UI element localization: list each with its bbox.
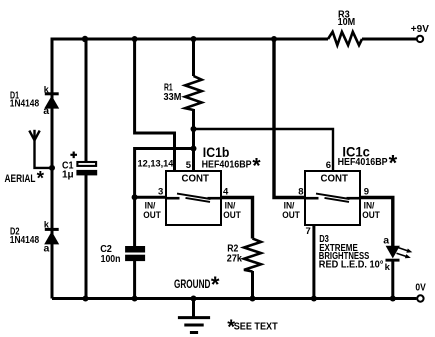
- svg-text:HEF4016BP: HEF4016BP: [202, 160, 252, 171]
- junction pin 3 to C2 node: [132, 194, 138, 200]
- IC1b switch symbol: [166, 194, 221, 202]
- svg-text:1N4148: 1N4148: [10, 235, 40, 246]
- wire supply drop to pin 8 of IC1c: [274, 39, 305, 198]
- wire node to pin 6 of IC1c: [194, 129, 334, 171]
- resistor R1: [185, 76, 202, 110]
- svg-text:10M: 10M: [338, 17, 356, 28]
- junction C1 bottom rail: [83, 296, 89, 302]
- junction C1 top rail: [82, 36, 88, 42]
- wire C1 vertical top: [85, 39, 88, 162]
- junction R2 bottom rail: [250, 296, 256, 302]
- svg-text:a: a: [43, 105, 49, 117]
- capacitor C2: [125, 246, 145, 261]
- junction C2 bottom rail: [132, 296, 138, 302]
- LED D3: [386, 246, 400, 262]
- svg-text:GROUND: GROUND: [174, 279, 210, 291]
- svg-text:*: *: [211, 272, 220, 297]
- wire R1 top lead: [192, 39, 195, 76]
- svg-text:a: a: [44, 243, 50, 255]
- LED D3 light arrows: [397, 248, 413, 259]
- wire bottom 0V rail: [52, 297, 416, 300]
- IC1b box: [166, 171, 221, 225]
- svg-text:a: a: [383, 234, 389, 246]
- svg-text:+9V: +9V: [411, 24, 429, 35]
- svg-text:9: 9: [364, 187, 369, 198]
- svg-text:IC1b: IC1b: [203, 144, 230, 160]
- svg-text:8: 8: [298, 187, 303, 198]
- svg-text:33M: 33M: [164, 92, 182, 103]
- svg-text:12,13,14: 12,13,14: [138, 159, 175, 170]
- diode D2: [44, 228, 59, 245]
- svg-text:CONT: CONT: [321, 173, 348, 184]
- wire +9V lead from R3: [362, 38, 416, 41]
- terminal 0V: [417, 295, 423, 301]
- svg-text:27k: 27k: [227, 254, 242, 265]
- aerial symbol: [29, 130, 50, 168]
- svg-text:CONT: CONT: [182, 173, 209, 184]
- wire pin 4 of IC1b to R2: [221, 198, 253, 239]
- svg-text:RED L.E.D. 10°: RED L.E.D. 10°: [319, 260, 384, 271]
- resistor R2: [244, 239, 261, 272]
- junction R1 to pin 6 node: [191, 126, 197, 132]
- junction R1 to C2 node: [191, 146, 197, 152]
- svg-text:3: 3: [158, 187, 163, 198]
- svg-text:1μ: 1μ: [62, 169, 74, 180]
- svg-text:4: 4: [223, 186, 229, 197]
- junction D3 bottom rail: [390, 296, 396, 302]
- diode D1: [44, 92, 59, 108]
- junction R1 top rail: [191, 36, 197, 42]
- svg-text:*: *: [37, 168, 45, 189]
- svg-text:6: 6: [326, 160, 331, 171]
- wire C2 bottom lead: [133, 261, 136, 299]
- svg-text:k: k: [385, 262, 391, 273]
- junction aerial to diode chain: [49, 165, 55, 171]
- svg-text:7: 7: [306, 226, 311, 237]
- wire pin 7 of IC1c to rail: [312, 225, 315, 299]
- wire D3 cathode lead: [391, 260, 394, 299]
- svg-text:OUT: OUT: [223, 210, 241, 221]
- junction ground stub bottom rail: [191, 296, 197, 302]
- svg-text:5: 5: [186, 160, 192, 171]
- ground symbol: [178, 299, 210, 333]
- svg-text:*: *: [252, 155, 261, 178]
- terminal +9V: [417, 36, 423, 42]
- svg-text:SEE TEXT: SEE TEXT: [234, 321, 279, 332]
- svg-text:100n: 100n: [101, 254, 121, 265]
- wire R2 bottom lead: [251, 271, 254, 299]
- svg-text:OUT: OUT: [143, 210, 161, 221]
- wire pin 9 of IC1c to D3: [360, 198, 393, 247]
- IC1c box: [305, 171, 360, 225]
- svg-text:OUT: OUT: [362, 210, 380, 221]
- wire R1 bottom lead to pin 5: [192, 109, 195, 171]
- wire VDD drop to pins 12,13,14: [135, 39, 175, 171]
- wire top supply rail: [52, 39, 328, 299]
- junction pin 7 bottom rail: [311, 296, 317, 302]
- wire pin 3 of IC1b: [135, 196, 166, 199]
- wire node to C2: [135, 149, 194, 248]
- junction VDD drop top rail: [132, 36, 138, 42]
- capacitor C1: [70, 152, 97, 176]
- svg-text:1N4148: 1N4148: [10, 99, 40, 110]
- wire C1 vertical bottom: [85, 175, 88, 299]
- junction pin 8 drop top rail: [271, 36, 277, 42]
- resistor R3: [328, 32, 362, 45]
- svg-text:AERIAL: AERIAL: [5, 173, 36, 185]
- svg-text:OUT: OUT: [282, 210, 300, 221]
- svg-text:*: *: [389, 150, 398, 175]
- svg-text:HEF4016BP: HEF4016BP: [338, 157, 388, 168]
- svg-text:0V: 0V: [415, 282, 426, 293]
- IC1c switch symbol: [305, 194, 360, 202]
